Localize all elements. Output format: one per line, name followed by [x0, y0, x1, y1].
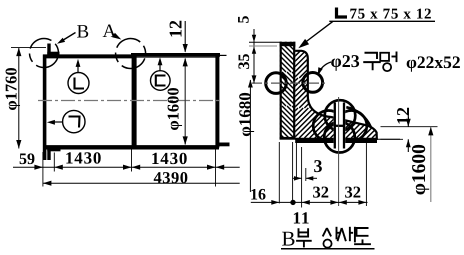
- svg-text:φ1600: φ1600: [163, 87, 182, 130]
- svg-text:φ23: φ23: [331, 51, 360, 71]
- svg-text:59: 59: [19, 151, 35, 168]
- svg-text:1430: 1430: [65, 149, 102, 168]
- svg-text:φ1760: φ1760: [2, 67, 21, 110]
- svg-text:4390: 4390: [154, 168, 189, 187]
- svg-text:φ22x52: φ22x52: [406, 52, 461, 72]
- svg-text:φ1680: φ1680: [235, 92, 254, 137]
- svg-text:3: 3: [314, 156, 323, 176]
- svg-text:φ1600: φ1600: [409, 144, 430, 195]
- svg-text:A: A: [103, 21, 117, 42]
- svg-text:12: 12: [165, 20, 185, 38]
- svg-text:35: 35: [236, 54, 253, 70]
- svg-text:B: B: [77, 22, 90, 43]
- svg-text:32: 32: [345, 183, 362, 202]
- svg-text:12: 12: [393, 107, 413, 125]
- svg-text:16: 16: [250, 187, 266, 204]
- svg-text:5: 5: [236, 16, 253, 24]
- svg-text:32: 32: [313, 183, 330, 202]
- svg-text:B: B: [282, 227, 296, 251]
- svg-text:1430: 1430: [151, 149, 188, 168]
- svg-text:11: 11: [293, 209, 311, 228]
- svg-text:75 x 75 x 12: 75 x 75 x 12: [350, 7, 432, 23]
